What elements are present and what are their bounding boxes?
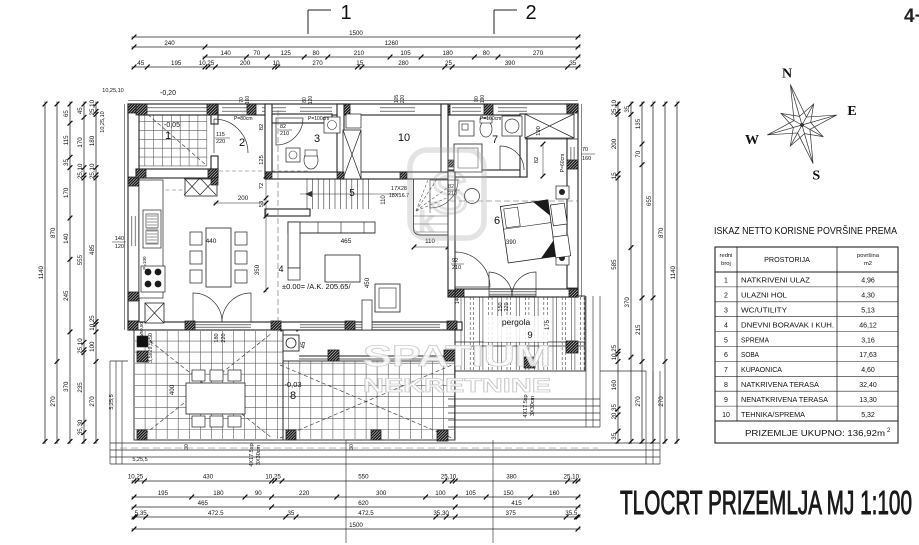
svg-text:PROSTORIJA: PROSTORIJA — [764, 255, 810, 264]
svg-text:13,30: 13,30 — [859, 397, 877, 404]
svg-text:300: 300 — [376, 490, 387, 497]
section line 1 lower — [345, 440, 347, 543]
kitchen counter — [139, 180, 163, 298]
bathroom basin — [502, 116, 522, 136]
svg-text:270: 270 — [89, 396, 96, 407]
svg-text:25,10: 25,10 — [89, 99, 96, 115]
svg-text:TEHNIKA/SPREMA: TEHNIKA/SPREMA — [741, 410, 805, 419]
bathroom washer — [459, 121, 474, 136]
right dim chain2 — [630, 102, 632, 444]
right dim chain5 — [664, 102, 666, 444]
svg-text:18X16.7: 18X16.7 — [389, 193, 410, 199]
top dim row4 — [132, 66, 581, 68]
svg-text:210: 210 — [280, 131, 289, 137]
svg-text:pergola: pergola — [502, 317, 531, 327]
svg-text:190: 190 — [536, 126, 542, 136]
svg-text:472.5: 472.5 — [208, 510, 224, 517]
svg-text:370: 370 — [63, 381, 70, 392]
svg-text:-0,03: -0,03 — [284, 380, 301, 389]
outer wall right — [567, 104, 578, 297]
svg-text:E: E — [847, 104, 856, 119]
svg-text:80: 80 — [483, 50, 490, 57]
svg-text:180: 180 — [443, 50, 454, 57]
svg-text:3: 3 — [724, 308, 728, 315]
left dim 1140 — [44, 102, 46, 444]
svg-text:100: 100 — [89, 341, 96, 352]
wc fixtures — [286, 148, 300, 162]
svg-text:210: 210 — [354, 50, 365, 57]
door stairs->bedroom — [455, 252, 490, 287]
section line 2 lower — [492, 440, 494, 543]
svg-text:200: 200 — [240, 60, 251, 67]
top wall window segments — [136, 103, 209, 105]
svg-text:ULAZNI HOL: ULAZNI HOL — [741, 291, 787, 300]
svg-text:195: 195 — [171, 60, 182, 67]
svg-text:1500: 1500 — [349, 522, 363, 529]
svg-text:82: 82 — [280, 124, 286, 130]
outer wall top — [128, 104, 578, 115]
top dim 1500 — [132, 36, 581, 38]
svg-text:20,35: 20,35 — [611, 403, 618, 419]
svg-text:5: 5 — [349, 188, 355, 199]
terrace boundary — [134, 330, 283, 440]
terrace planter column — [283, 335, 299, 351]
bottom dim rowC — [132, 506, 581, 508]
svg-text:PRIZEMLJE UKUPNO: 136,92m: PRIZEMLJE UKUPNO: 136,92m — [745, 429, 885, 438]
axis 4 dashed — [277, 110, 279, 332]
corridor bottom wall — [265, 209, 310, 216]
svg-text:450: 450 — [364, 277, 371, 288]
svg-text:270: 270 — [658, 396, 665, 407]
svg-text:375: 375 — [506, 510, 517, 517]
svg-text:195: 195 — [158, 490, 169, 497]
svg-text:870: 870 — [50, 227, 57, 238]
svg-text:110: 110 — [381, 195, 387, 205]
bathroom shower — [454, 144, 482, 172]
dining chairs — [190, 232, 202, 245]
wall room10/bath — [441, 104, 448, 172]
svg-text:7: 7 — [492, 134, 498, 146]
svg-text:175: 175 — [545, 319, 551, 330]
svg-text:SPATIUM: SPATIUM — [363, 340, 551, 373]
watermark logo S — [410, 150, 484, 238]
left dim chain5 — [95, 102, 97, 444]
svg-text:P=100cm: P=100cm — [308, 116, 329, 122]
svg-text:1500: 1500 — [349, 30, 363, 37]
svg-text:555: 555 — [77, 254, 84, 265]
svg-text:3X30cm: 3X30cm — [256, 444, 262, 465]
svg-text:620: 620 — [358, 500, 369, 507]
svg-text:220: 220 — [504, 302, 510, 311]
svg-text:82: 82 — [534, 157, 540, 163]
svg-text:245: 245 — [63, 290, 70, 301]
svg-text:4+: 4+ — [904, 6, 919, 27]
ground level dash line — [120, 447, 598, 449]
svg-text:35,30: 35,30 — [77, 419, 84, 435]
dining table — [206, 228, 231, 287]
svg-text:15: 15 — [356, 60, 363, 67]
wardrobe X — [185, 179, 217, 196]
dim 200 — [214, 202, 266, 204]
compass rose — [756, 75, 848, 174]
pergola labels — [484, 316, 548, 342]
svg-text:S: S — [812, 169, 820, 184]
svg-text:105: 105 — [466, 490, 477, 497]
svg-text:220: 220 — [299, 490, 310, 497]
steps bottom wrap — [110, 296, 660, 464]
svg-text:9: 9 — [724, 397, 728, 404]
svg-text:5,35: 5,35 — [135, 510, 148, 517]
svg-text:160: 160 — [245, 96, 251, 105]
pergola boundary — [455, 296, 585, 371]
svg-text:82: 82 — [259, 124, 265, 130]
french door bedroom->pergola — [489, 272, 512, 296]
top wall posts — [128, 104, 137, 115]
terrace diagonal dashes — [140, 333, 272, 438]
svg-text:45: 45 — [77, 107, 84, 114]
svg-text:270: 270 — [50, 396, 57, 407]
svg-text:400: 400 — [169, 384, 176, 395]
svg-text:90: 90 — [255, 490, 262, 497]
svg-text:3,16: 3,16 — [861, 337, 875, 344]
right dim chain3 — [641, 102, 643, 444]
svg-text:P=100cm: P=100cm — [480, 116, 501, 122]
svg-text:4,60: 4,60 — [861, 367, 875, 374]
svg-text:170: 170 — [63, 187, 70, 198]
svg-text:10: 10 — [273, 60, 280, 67]
outer wall left — [128, 104, 139, 330]
shaft X-box — [343, 130, 361, 179]
svg-text:585: 585 — [611, 259, 618, 270]
svg-text:10,25: 10,25 — [265, 474, 281, 481]
svg-text:10,25,10: 10,25,10 — [100, 111, 106, 132]
kitchen lower-left X box — [145, 303, 164, 323]
svg-text:220: 220 — [221, 333, 227, 342]
svg-text:ISKAZ NETTO KORISNE POVRŠINE P: ISKAZ NETTO KORISNE POVRŠINE PREMA — [714, 224, 897, 237]
svg-text:105: 105 — [400, 50, 411, 57]
terrace tile grid left — [135, 331, 455, 439]
svg-text:2: 2 — [724, 293, 728, 300]
svg-text:10,25: 10,25 — [611, 344, 618, 360]
svg-text:70: 70 — [253, 50, 260, 57]
strip edge posts — [328, 350, 339, 361]
svg-text:3: 3 — [314, 133, 320, 145]
stairs walk line — [300, 193, 400, 195]
svg-text:200: 200 — [611, 138, 618, 149]
svg-text:180: 180 — [214, 333, 220, 342]
svg-text:35: 35 — [624, 105, 631, 112]
bottom dim rowD — [132, 516, 581, 518]
svg-text:5,25,5: 5,25,5 — [109, 394, 115, 409]
svg-text:15: 15 — [611, 172, 618, 179]
stairs main flight — [307, 179, 369, 209]
bedroom closet X — [525, 114, 574, 138]
kitchen upper cabinet dash — [146, 189, 185, 191]
svg-text:550: 550 — [358, 474, 369, 481]
bottom dim rowB — [132, 496, 581, 498]
bedroom circle — [465, 189, 480, 204]
washing machine — [324, 117, 340, 133]
svg-text:220: 220 — [216, 139, 225, 145]
svg-text:10,25,10: 10,25,10 — [102, 88, 123, 94]
room10 small fixture — [346, 114, 361, 128]
svg-text:10,25: 10,25 — [199, 60, 215, 67]
corridor dashed line — [219, 170, 308, 172]
svg-text:180: 180 — [213, 490, 224, 497]
svg-text:3X30cm: 3X30cm — [530, 395, 536, 416]
bath door arc — [500, 146, 524, 170]
svg-text:135: 135 — [635, 118, 642, 129]
svg-text:70: 70 — [635, 150, 642, 157]
junction posts — [265, 172, 272, 179]
svg-text:1140: 1140 — [38, 265, 45, 279]
svg-text:280: 280 — [398, 60, 409, 67]
svg-text:35: 35 — [611, 432, 618, 439]
door corridor->wc2 — [430, 180, 458, 208]
svg-text:415: 415 — [511, 500, 522, 507]
svg-text:35: 35 — [569, 60, 576, 67]
svg-text:350: 350 — [254, 264, 261, 275]
svg-text:4X17.5sp: 4X17.5sp — [249, 443, 255, 466]
svg-text:25,10: 25,10 — [77, 163, 84, 179]
svg-text:170: 170 — [77, 137, 84, 148]
stairs winder fan — [414, 172, 449, 232]
svg-text:160: 160 — [549, 490, 560, 497]
svg-text:5,32: 5,32 — [861, 412, 875, 419]
tv sideboard — [362, 300, 372, 330]
bathroom wc — [480, 121, 492, 137]
svg-text:440: 440 — [206, 238, 217, 245]
bottom wall living — [128, 322, 462, 330]
kitchen stove — [141, 266, 165, 292]
svg-text:100: 100 — [435, 490, 446, 497]
svg-text:17,63: 17,63 — [859, 352, 877, 359]
svg-text:220: 220 — [400, 95, 406, 104]
svg-text:7: 7 — [724, 367, 728, 374]
svg-text:17X28: 17X28 — [391, 186, 407, 192]
entry bottom wall — [136, 169, 218, 178]
svg-text:140: 140 — [115, 236, 124, 242]
svg-text:TLOCRT PRIZEMLJA MJ 1:100: TLOCRT PRIZEMLJA MJ 1:100 — [620, 484, 912, 521]
svg-text:140: 140 — [455, 296, 461, 305]
svg-text:465: 465 — [198, 500, 209, 507]
section marker 1 — [308, 9, 331, 11]
section marker 2 — [494, 9, 517, 11]
bedroom bottom wall — [455, 289, 578, 297]
svg-text:65: 65 — [63, 110, 70, 117]
svg-text:35: 35 — [63, 159, 70, 166]
svg-text:NEKRETNINE: NEKRETNINE — [363, 376, 551, 397]
closet front line — [525, 138, 578, 140]
svg-text:53: 53 — [259, 201, 265, 207]
svg-text:190: 190 — [480, 95, 486, 104]
svg-text:1: 1 — [724, 278, 728, 285]
svg-text:25,10: 25,10 — [89, 163, 96, 179]
svg-text:45: 45 — [301, 341, 307, 348]
pergola stripe texture — [461, 297, 584, 370]
svg-text:1140: 1140 — [670, 265, 677, 279]
svg-text:72: 72 — [259, 183, 265, 189]
left wall posts — [128, 104, 139, 113]
svg-text:465: 465 — [341, 238, 352, 245]
svg-text:160: 160 — [582, 156, 591, 162]
facade offset lines — [128, 100, 578, 102]
svg-text:4: 4 — [724, 322, 728, 329]
outdoor table terrace — [186, 383, 245, 414]
room3 recessed stub wall — [272, 114, 332, 123]
svg-text:25: 25 — [445, 60, 452, 67]
svg-text:m2: m2 — [864, 261, 872, 267]
wall bath/bedroom — [448, 170, 527, 177]
svg-text:115: 115 — [63, 135, 70, 145]
svg-text:S: S — [430, 161, 469, 226]
svg-text:390: 390 — [506, 240, 517, 246]
svg-text:80: 80 — [313, 50, 320, 57]
sofa — [288, 222, 375, 233]
french door living->terrace — [193, 293, 222, 322]
svg-text:25,10: 25,10 — [564, 474, 580, 481]
bench wardrobe — [548, 203, 571, 258]
svg-text:NATKRIVENA TERASA: NATKRIVENA TERASA — [741, 380, 819, 389]
svg-text:30: 30 — [349, 444, 355, 450]
bed — [500, 200, 555, 263]
svg-text:70: 70 — [582, 147, 588, 153]
svg-text:redni: redni — [720, 253, 733, 259]
svg-text:-0,05: -0,05 — [164, 122, 180, 129]
svg-text:4X17.5sp: 4X17.5sp — [523, 394, 529, 417]
top dim row3 — [203, 56, 581, 58]
coffee table — [325, 255, 360, 282]
svg-text:10,25: 10,25 — [89, 315, 96, 331]
entry porch diagonal — [138, 106, 206, 165]
chain dim line — [265, 176, 267, 292]
svg-text:140: 140 — [221, 50, 232, 57]
pergola posts — [566, 341, 578, 353]
svg-text:SOBA: SOBA — [741, 350, 759, 359]
svg-text:150: 150 — [503, 490, 514, 497]
svg-text:485: 485 — [89, 244, 96, 255]
svg-text:SPREMA: SPREMA — [741, 335, 769, 344]
svg-text:180: 180 — [89, 135, 96, 146]
svg-text:NENATKRIVENA TERASA: NENATKRIVENA TERASA — [741, 395, 828, 404]
right dim chain1 — [617, 102, 619, 444]
svg-text:25,10: 25,10 — [611, 99, 618, 115]
svg-text:430: 430 — [203, 474, 214, 481]
svg-text:270: 270 — [635, 396, 642, 407]
table frame — [715, 247, 898, 443]
svg-text:6: 6 — [494, 215, 500, 227]
bedroom axis dashes — [450, 200, 578, 202]
svg-text:472.5: 472.5 — [358, 510, 374, 517]
entry posts — [136, 169, 146, 178]
svg-text:±0.00= /A.K. 205.65/: ±0.00= /A.K. 205.65/ — [282, 282, 351, 291]
svg-text:10: 10 — [398, 132, 410, 144]
svg-text:35,30: 35,30 — [433, 510, 449, 517]
svg-text:4: 4 — [278, 264, 283, 274]
svg-text:120: 120 — [115, 244, 124, 250]
svg-text:45: 45 — [137, 60, 144, 67]
svg-text:870: 870 — [658, 227, 665, 238]
svg-text:8: 8 — [724, 382, 728, 389]
svg-text:1260: 1260 — [385, 40, 399, 47]
svg-text:92: 92 — [452, 258, 458, 264]
door hol->wc — [276, 118, 303, 145]
wall bath/closet — [520, 114, 527, 177]
svg-text:broj: broj — [721, 261, 731, 267]
svg-text:3,5x29,5x50: 3,5x29,5x50 — [148, 333, 154, 363]
svg-text:35: 35 — [287, 510, 294, 517]
svg-text:-0,20: -0,20 — [160, 90, 176, 97]
left dim chain4 — [83, 102, 85, 444]
svg-text:380: 380 — [506, 474, 517, 481]
svg-text:35,5: 35,5 — [565, 510, 578, 517]
svg-text:140: 140 — [63, 233, 70, 244]
watermark text — [363, 340, 551, 397]
bottom dim 1500 — [132, 528, 581, 530]
svg-text:235: 235 — [77, 382, 84, 393]
left dim 870/270 — [56, 102, 58, 444]
svg-text:5,25,5: 5,25,5 — [132, 457, 147, 463]
svg-text:površina: površina — [857, 253, 880, 259]
svg-text:390: 390 — [505, 60, 516, 67]
black utility box — [137, 336, 148, 347]
interior wall hol/wc — [265, 104, 272, 172]
svg-text:2: 2 — [239, 137, 245, 149]
svg-text:P=80cm: P=80cm — [234, 116, 252, 122]
svg-text:370: 370 — [624, 297, 631, 308]
armchair group — [375, 284, 400, 312]
svg-text:1: 1 — [340, 2, 351, 24]
svg-text:120: 120 — [308, 96, 314, 105]
svg-text:6: 6 — [724, 352, 728, 359]
top dim 240/1260 — [132, 46, 581, 48]
svg-text:32,40: 32,40 — [859, 382, 877, 389]
terrace corner posts — [137, 430, 147, 440]
svg-text:215: 215 — [635, 324, 642, 335]
svg-text:46,12: 46,12 — [859, 322, 877, 329]
svg-text:N: N — [782, 67, 792, 82]
table rows — [715, 286, 898, 288]
svg-text:36,20,50,50: 36,20,50,50 — [139, 322, 144, 346]
svg-text:30: 30 — [184, 444, 190, 450]
svg-text:200: 200 — [238, 195, 249, 202]
svg-text:210: 210 — [452, 265, 461, 271]
wall stairs/bedroom — [448, 171, 455, 297]
svg-text:k: k — [419, 206, 434, 237]
svg-text:10: 10 — [722, 412, 730, 419]
kitchen sink — [143, 210, 161, 248]
svg-text:10,25: 10,25 — [128, 474, 144, 481]
door entry->hol — [214, 119, 248, 153]
svg-text:270: 270 — [533, 50, 544, 57]
nightstands — [556, 186, 569, 199]
svg-text:P=60cm: P=60cm — [560, 154, 566, 172]
svg-text:160: 160 — [611, 379, 618, 390]
left dim chain3 — [69, 102, 71, 444]
svg-text:5: 5 — [724, 337, 728, 344]
svg-text:240: 240 — [164, 40, 175, 47]
svg-text:P=100: P=100 — [142, 256, 147, 270]
wall wc/room10 — [337, 104, 344, 172]
svg-text:W: W — [745, 133, 759, 148]
right dim chain4 — [652, 102, 654, 444]
svg-text:DNEVNI BORAVAK I KUH.: DNEVNI BORAVAK I KUH. — [741, 320, 834, 329]
entry porch tile grid room1 — [136, 104, 207, 166]
svg-text:5,13: 5,13 — [861, 308, 875, 315]
svg-text:8: 8 — [290, 390, 296, 402]
svg-text:1: 1 — [165, 130, 171, 142]
svg-text:KUPAONICA: KUPAONICA — [741, 365, 782, 374]
